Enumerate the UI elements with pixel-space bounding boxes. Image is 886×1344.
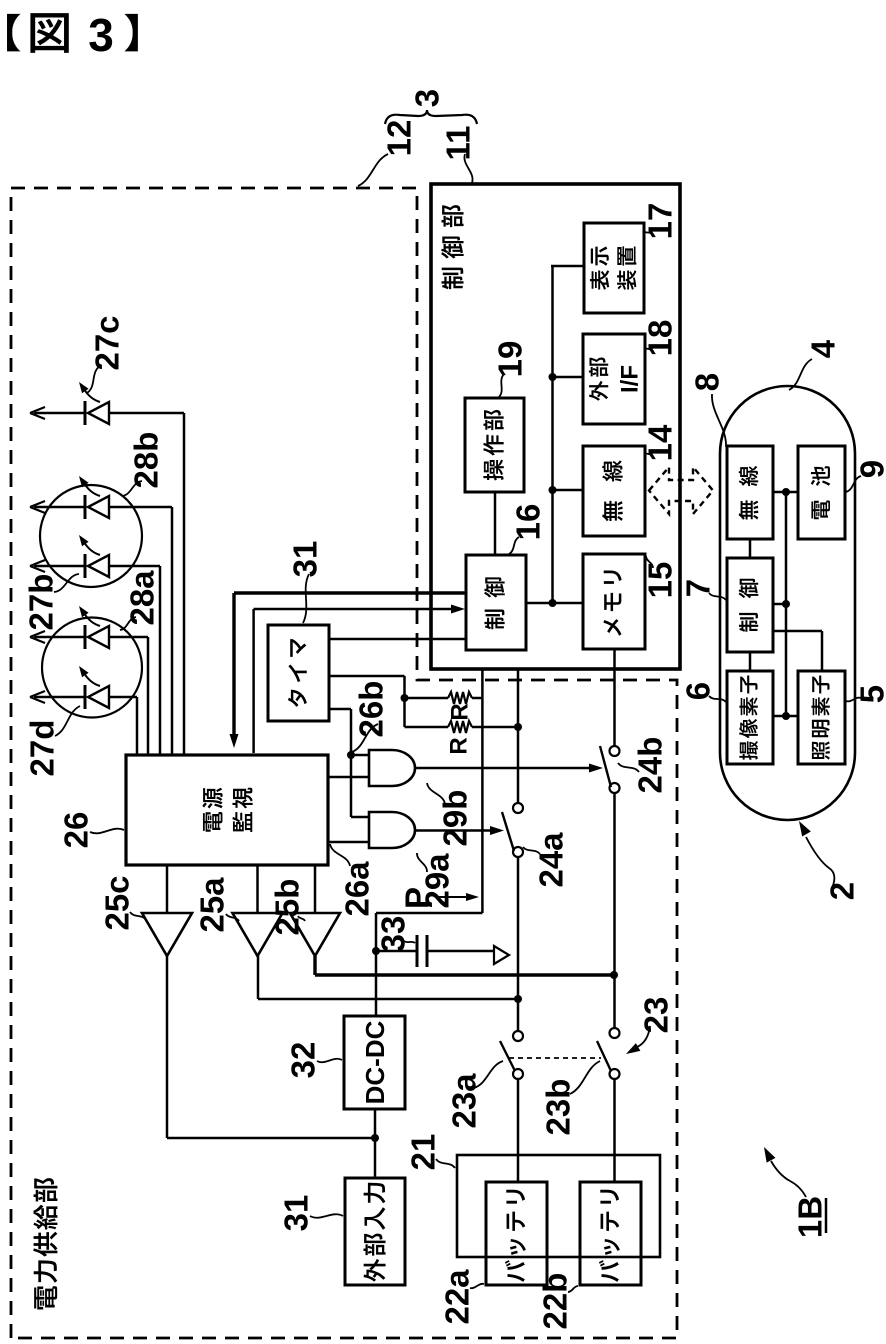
box 8 無線 <box>727 446 773 539</box>
wire bus vertical 制御-メモリ <box>526 602 583 605</box>
box 17 表示装置 <box>584 223 644 313</box>
svg-text:I/F: I/F <box>616 365 643 393</box>
box 19 操作部 <box>465 398 524 492</box>
bus corner to 表示装置 <box>551 265 584 268</box>
wire 25b output (thick) <box>313 956 316 975</box>
switch 23a <box>513 1031 523 1041</box>
LED diode 4 <box>88 626 109 648</box>
svg-text:P: P <box>399 887 436 909</box>
svg-text:19: 19 <box>492 341 529 378</box>
label 制御部 <box>442 268 464 290</box>
LED output arrow 2 <box>34 506 85 509</box>
wire タイマ branch to gates <box>329 708 351 711</box>
svg-text:12: 12 <box>381 120 418 157</box>
bus stub to 無線14 <box>553 489 584 492</box>
svg-text:3: 3 <box>88 9 114 61</box>
svg-text:27b: 27b <box>23 574 60 631</box>
wire タイマ to R pullups <box>329 675 405 678</box>
wire bus horizontal <box>551 266 554 603</box>
resistor R1 <box>405 697 449 700</box>
box 7 制御 <box>727 558 773 652</box>
box 26 電源監視 <box>126 755 328 865</box>
svg-text:26a: 26a <box>339 861 376 917</box>
svg-text:23: 23 <box>638 997 675 1034</box>
svg-text:32: 32 <box>285 1042 322 1079</box>
circle 28b <box>40 485 142 587</box>
bus junction dot <box>549 599 557 607</box>
svg-text:25a: 25a <box>194 877 231 933</box>
box 16 制御 <box>466 555 526 650</box>
box 9 電池 <box>798 446 845 539</box>
wire 25a output <box>257 956 260 999</box>
gate 29b output arrow to switch 24b <box>415 767 597 770</box>
svg-text:24b: 24b <box>632 737 669 794</box>
wire 電源監視-25b <box>314 865 317 913</box>
LED emission arrow 2 <box>84 483 100 496</box>
LED feed wire 3 <box>159 566 162 755</box>
wire line-B from box 11 <box>517 668 520 803</box>
svg-text:23a: 23a <box>446 1073 483 1129</box>
box 外部入力 <box>345 1178 405 1285</box>
LED feed wire 1 <box>183 413 186 755</box>
LED output arrow 5 <box>34 696 85 699</box>
svg-text:28b: 28b <box>128 432 165 489</box>
svg-text:25c: 25c <box>99 875 136 930</box>
svg-text:2: 2 <box>824 882 861 900</box>
buffer 25a <box>233 913 283 956</box>
circle 28a <box>42 618 142 718</box>
svg-text:22a: 22a <box>439 1269 476 1325</box>
LED feed wire 4 <box>147 637 150 755</box>
svg-text:9: 9 <box>854 460 886 478</box>
switch 23b <box>610 1028 620 1038</box>
svg-text:28a: 28a <box>124 570 161 626</box>
LED output arrow 1 <box>34 412 85 415</box>
LED output arrow 4 <box>34 636 85 639</box>
AND gate 29b <box>369 750 415 786</box>
svg-text:23b: 23b <box>540 1079 577 1136</box>
wire 電源監視-制御16 with arrow <box>252 609 255 753</box>
capsule power bus <box>785 492 788 716</box>
box 6 撮像素子 <box>727 671 773 764</box>
svg-text:24a: 24a <box>533 832 570 888</box>
svg-text:15: 15 <box>642 562 679 599</box>
svg-text:26: 26 <box>58 812 95 849</box>
svg-text:25b: 25b <box>269 879 306 936</box>
box 15 メモリ <box>583 554 645 649</box>
wire 制御7-照明素子5 <box>773 630 822 633</box>
svg-text:27d: 27d <box>24 720 61 777</box>
svg-text:R: R <box>446 703 473 720</box>
box 5 照明素子 <box>798 671 845 764</box>
svg-text:R: R <box>445 737 472 754</box>
svg-text:4: 4 <box>805 339 842 358</box>
svg-text:14: 14 <box>642 424 679 461</box>
stub 電池 <box>773 491 798 494</box>
svg-text:3: 3 <box>409 89 446 107</box>
dashed box 12 電力供給部 outline <box>11 188 677 1338</box>
box 32 DC-DC <box>344 1016 405 1109</box>
LED diode 2 <box>88 496 109 518</box>
wire 電源監視-29b <box>328 776 369 779</box>
buffer 25b <box>290 913 340 956</box>
svg-text:17: 17 <box>642 203 679 240</box>
battery 22a バッテリ <box>486 1182 547 1285</box>
svg-text:8: 8 <box>689 373 726 391</box>
leader 12 <box>358 154 388 186</box>
svg-text:31: 31 <box>287 541 324 578</box>
label 電力供給部 <box>34 1286 57 1309</box>
LED diode 5 <box>88 686 109 708</box>
LED diode 1 <box>88 402 109 424</box>
battery pack box 21 <box>457 1155 660 1257</box>
svg-text:21: 21 <box>405 1134 442 1171</box>
battery 22b バッテリ <box>580 1182 641 1285</box>
capacitor 33 <box>376 950 417 953</box>
svg-text:5: 5 <box>854 685 886 703</box>
LED emission arrow 3 <box>84 542 100 555</box>
svg-text:1B: 1B <box>792 1196 829 1238</box>
switch 24a <box>513 803 523 813</box>
wire 操作部-制御 <box>494 492 497 555</box>
ground symbol <box>494 946 509 964</box>
switch 24b <box>610 746 620 756</box>
gate 29a output arrow to switch 24a <box>415 829 498 832</box>
LED diode 3 <box>88 555 109 577</box>
figure title 【図 3】 <box>7 14 20 52</box>
wireless link double arrow <box>649 467 713 514</box>
LED emission arrow 1 <box>84 389 100 402</box>
box 31 タイマ <box>268 625 329 721</box>
leader 11 <box>464 154 472 183</box>
arrow 1B <box>771 1161 806 1197</box>
LED emission arrow 5 <box>84 673 100 686</box>
LED emission arrow 4 <box>84 613 100 626</box>
stub 撮像素子-照明素子 <box>773 715 798 718</box>
capsule 2 stadium outline <box>720 386 855 820</box>
wire 制御16-電源監視 with arrow (thick) <box>234 591 466 594</box>
wire 25c output to 外部入力/DC-DC node <box>166 956 169 1138</box>
AND gate 29a <box>369 812 415 848</box>
bus stub to 外部I/F <box>553 376 584 379</box>
svg-text:27c: 27c <box>89 315 126 370</box>
node P wire <box>481 668 484 913</box>
wire 電源監視-25a <box>256 865 259 913</box>
LED feed wire 2 <box>171 507 174 755</box>
svg-text:22b: 22b <box>537 1273 574 1330</box>
wire line-C from メモリ <box>613 649 616 746</box>
resistor R2 <box>405 726 449 729</box>
svg-text:31: 31 <box>278 1195 315 1232</box>
LED feed wire 5 <box>136 697 139 755</box>
brace for 3 <box>385 110 477 124</box>
buffer 25c <box>142 913 192 956</box>
box 18 外部I/F <box>583 334 645 424</box>
svg-text:33: 33 <box>375 916 412 953</box>
stub 制御7 <box>773 603 786 606</box>
wire 無線8-制御7 <box>749 539 752 558</box>
svg-text:18: 18 <box>642 320 679 357</box>
box 11 制御部 <box>431 184 680 669</box>
wire 電源監視-25c <box>166 865 169 913</box>
wire タイマ-制御16 <box>329 638 466 641</box>
svg-text:16: 16 <box>510 504 547 541</box>
wire 制御7-撮像素子6 <box>749 652 752 671</box>
svg-text:DC-DC: DC-DC <box>360 1020 390 1104</box>
LED output arrow 3 <box>34 565 85 568</box>
svg-text:11: 11 <box>440 126 477 161</box>
ganged switch dashed link <box>509 1057 601 1059</box>
box 14 無線 <box>583 446 645 536</box>
wire 電源監視-29a <box>328 841 369 844</box>
